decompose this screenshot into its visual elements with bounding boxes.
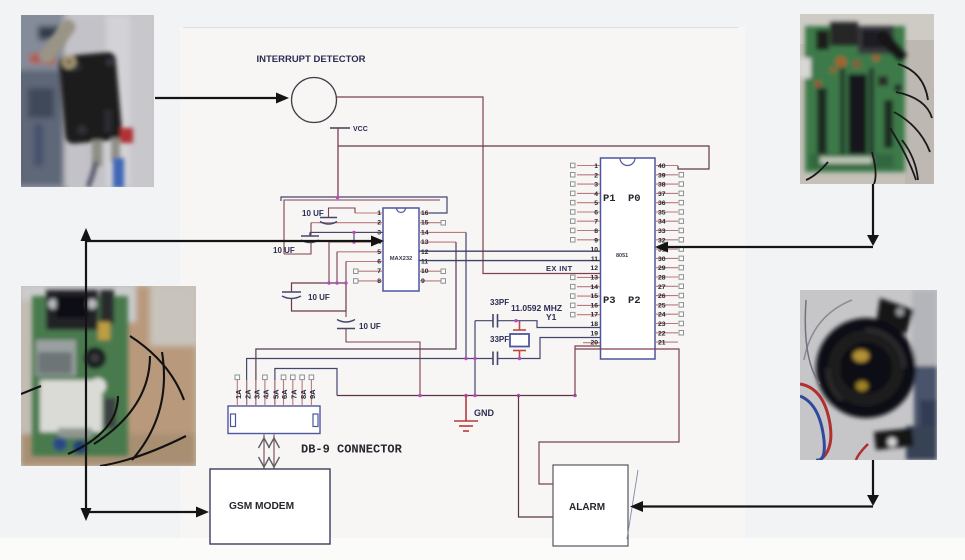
wire: U1 pin11 to U2 pin11 (419, 260, 600, 262)
svg-text:4: 4 (594, 191, 598, 198)
GSM MODEM block (210, 469, 330, 544)
capacitor C4 10UF (flipped, below loop) (337, 320, 355, 329)
junction node: VCC / top rail (336, 196, 340, 200)
U2 left pin stubs (577, 166, 600, 343)
svg-text:1A: 1A (234, 389, 243, 399)
svg-text:2: 2 (377, 220, 381, 227)
wire: U1 pin14 down to node (465, 232, 467, 358)
wire: pin3 navy segment (310, 231, 383, 233)
svg-text:30: 30 (658, 256, 666, 263)
J1 pin terminal squares (235, 375, 314, 380)
wire: DB9 pin 5A to GND bus (275, 369, 337, 407)
wire: pin4 to loop (328, 242, 330, 283)
svg-text:1: 1 (594, 163, 598, 170)
svg-text:9A: 9A (308, 389, 317, 399)
svg-text:27: 27 (658, 284, 666, 291)
junction nodes crystal network (514, 319, 517, 322)
svg-text:33PF: 33PF (490, 335, 509, 344)
junction nodes on GND bus (418, 394, 422, 398)
wire: loop to C4 to GND bus (345, 311, 347, 317)
svg-text:39: 39 (658, 172, 666, 179)
svg-text:7A: 7A (290, 389, 299, 399)
wire: top rail (navy) to MAX232 pin 16 (281, 197, 447, 213)
svg-text:2A: 2A (243, 389, 252, 399)
svg-text:Y1: Y1 (546, 312, 557, 322)
arrow: link to MAX232 (86, 236, 384, 247)
svg-text:16: 16 (590, 302, 598, 309)
svg-text:GND: GND (474, 408, 495, 418)
svg-text:13: 13 (421, 239, 429, 246)
svg-text:6A: 6A (280, 389, 289, 399)
U2 pin numbers right 40-21 (658, 163, 666, 347)
arrow: 8051 photo link (655, 184, 879, 253)
svg-text:29: 29 (658, 265, 666, 272)
wire: pin5 to loop (336, 252, 338, 283)
svg-text:35: 35 (658, 210, 666, 217)
U2 pin terminal squares left (571, 163, 576, 317)
svg-text:15: 15 (421, 220, 429, 227)
wire: VCC rail to 8051 pin 40 (338, 146, 709, 169)
U1 pin stubs left pins 1-8 (310, 213, 383, 281)
wire: pin2 drop to C2 top (310, 223, 312, 236)
svg-text:7: 7 (594, 219, 598, 226)
wire: pin20/21 crossover and alarm feed (539, 349, 679, 484)
arrow: link to GSM MODEM (86, 507, 209, 518)
wire: pin1 loop to C1 (329, 208, 356, 218)
capacitor C5 33PF (upper) (493, 314, 498, 328)
stray diagonal mark near alarm (627, 470, 638, 539)
U2 pin terminal squares right (679, 173, 684, 336)
wire: inner top rail (maroon) (284, 200, 440, 254)
wire: left node to cap B bottom (284, 243, 311, 254)
wire: ground loop rectangle (292, 283, 347, 311)
svg-text:P2: P2 (628, 295, 641, 307)
arrow: alarm photo link (630, 460, 879, 512)
wire: DB9 pin 2A to crystal-cap line (247, 359, 493, 407)
svg-text:GSM MODEM: GSM MODEM (229, 501, 294, 512)
capacitor C1 10UF (top, at pin1/2) (320, 218, 337, 225)
arrow: bidirectional photo link (left) (81, 228, 92, 521)
svg-text:15: 15 (590, 293, 598, 300)
svg-text:9: 9 (421, 278, 425, 285)
svg-text:12: 12 (421, 249, 429, 256)
svg-text:36: 36 (658, 200, 666, 207)
svg-text:3A: 3A (253, 389, 262, 399)
wire: U1 pin12 to U2 pin10 (419, 250, 600, 252)
arrow: double link DB9 to GSM (up/down chevrons) (259, 435, 280, 469)
connector J1 DB-9 body (228, 406, 320, 434)
svg-text:21: 21 (658, 340, 666, 347)
svg-text:10: 10 (421, 268, 429, 275)
svg-text:24: 24 (658, 312, 666, 319)
svg-text:8051: 8051 (616, 253, 628, 259)
svg-text:3: 3 (594, 182, 598, 189)
J1 pin stubs (237, 380, 311, 406)
svg-text:8: 8 (594, 228, 598, 235)
svg-text:34: 34 (658, 219, 666, 226)
svg-text:33PF: 33PF (490, 298, 509, 307)
svg-text:16: 16 (421, 210, 429, 217)
arrow: photo to detector (155, 93, 289, 104)
wire: pin6 through loop to C4 (345, 262, 347, 284)
svg-text:11: 11 (421, 259, 428, 266)
svg-text:17: 17 (590, 312, 598, 319)
ALARM block (553, 465, 628, 546)
J1 pin labels 1A-9A (234, 389, 317, 399)
ground symbol (454, 396, 478, 432)
svg-text:37: 37 (658, 191, 666, 198)
op-amp/IC U1 MAX232 body (383, 208, 419, 291)
crystal Y1 body (510, 334, 529, 347)
pin terminal squares U1 (354, 221, 446, 284)
photo: interrupt detector micro-switch (top-left) (10, 10, 154, 190)
svg-text:5: 5 (594, 200, 598, 207)
svg-text:25: 25 (658, 302, 666, 309)
svg-text:40: 40 (658, 163, 666, 170)
svg-text:P3: P3 (603, 295, 616, 307)
U2 right pin stubs (655, 166, 678, 343)
U2 pin numbers left 1-20 (590, 163, 598, 347)
svg-text:7: 7 (377, 268, 381, 275)
svg-text:2: 2 (594, 172, 598, 179)
U1 pin numbers left (377, 210, 381, 285)
transistor/IC U2 8051 body (601, 158, 656, 359)
svg-text:19: 19 (590, 330, 598, 337)
svg-text:VCC: VCC (353, 126, 368, 133)
svg-text:12: 12 (590, 265, 598, 272)
photo: GSM modem board (bottom-left) (21, 286, 196, 466)
svg-text:P0: P0 (628, 193, 641, 205)
svg-text:5: 5 (377, 249, 381, 256)
wire: lower crystal node to U2 pin19 (498, 338, 601, 359)
svg-text:6: 6 (594, 210, 598, 217)
U1 pin numbers right (421, 210, 429, 285)
svg-text:8A: 8A (299, 389, 308, 399)
svg-text:28: 28 (658, 275, 666, 282)
photo: alarm buzzer (bottom-right) (800, 290, 937, 460)
svg-text:INTERRUPT DETECTOR: INTERRUPT DETECTOR (256, 54, 365, 65)
svg-text:33: 33 (658, 228, 666, 235)
node jumper pins3-4 (353, 232, 355, 242)
wire: upper crystal node to U2 pin18 (475, 321, 600, 328)
svg-text:23: 23 (658, 321, 666, 328)
svg-text:8: 8 (377, 278, 381, 285)
wire: GND bus (337, 395, 575, 397)
wire: detector to EX INT (node) (337, 97, 601, 274)
svg-text:22: 22 (658, 330, 666, 337)
svg-text:6: 6 (377, 259, 381, 266)
junction nodes on loop (327, 281, 330, 284)
svg-text:1: 1 (377, 210, 381, 217)
power VCC symbol (330, 127, 350, 129)
wire: caps left leg to GND bus (474, 321, 476, 396)
svg-text:ALARM: ALARM (569, 502, 605, 513)
svg-text:10 UF: 10 UF (302, 209, 324, 218)
wire: GND bus branch to alarm (519, 396, 554, 518)
crystal electrode bars (513, 321, 526, 359)
svg-text:P1: P1 (603, 193, 616, 205)
svg-text:10: 10 (590, 247, 598, 254)
svg-text:10 UF: 10 UF (308, 293, 330, 302)
svg-text:MAX232: MAX232 (390, 256, 413, 262)
wire: U1 pin13 to DB9 pin 3A (256, 242, 456, 406)
svg-text:13: 13 (590, 275, 598, 282)
svg-text:9: 9 (594, 237, 598, 244)
schematic scan sheet (180, 27, 745, 539)
capacitor C2 10UF (left of arrow) (301, 232, 319, 242)
U1 pin stubs right pins 16-9 (419, 213, 466, 281)
wire: VCC vertical to top rail (337, 128, 339, 197)
svg-text:11: 11 (591, 256, 598, 263)
capacitor C3 10UF (lower-left loop) (282, 292, 301, 299)
svg-text:14: 14 (421, 229, 429, 236)
svg-text:EX INT: EX INT (546, 264, 573, 273)
svg-text:26: 26 (658, 293, 666, 300)
svg-text:DB-9 CONNECTOR: DB-9 CONNECTOR (301, 443, 403, 457)
svg-text:14: 14 (590, 284, 598, 291)
svg-text:38: 38 (658, 182, 666, 189)
svg-text:10 UF: 10 UF (273, 246, 295, 255)
svg-text:10 UF: 10 UF (359, 322, 381, 331)
photo: 8051 microcontroller board (top-right) (798, 14, 934, 184)
interrupt detector sensor circle (292, 78, 337, 123)
wire: U2 pin20 to GND bus (575, 346, 600, 396)
svg-text:4A: 4A (262, 389, 271, 399)
capacitor C6 33PF (lower) (493, 352, 498, 366)
